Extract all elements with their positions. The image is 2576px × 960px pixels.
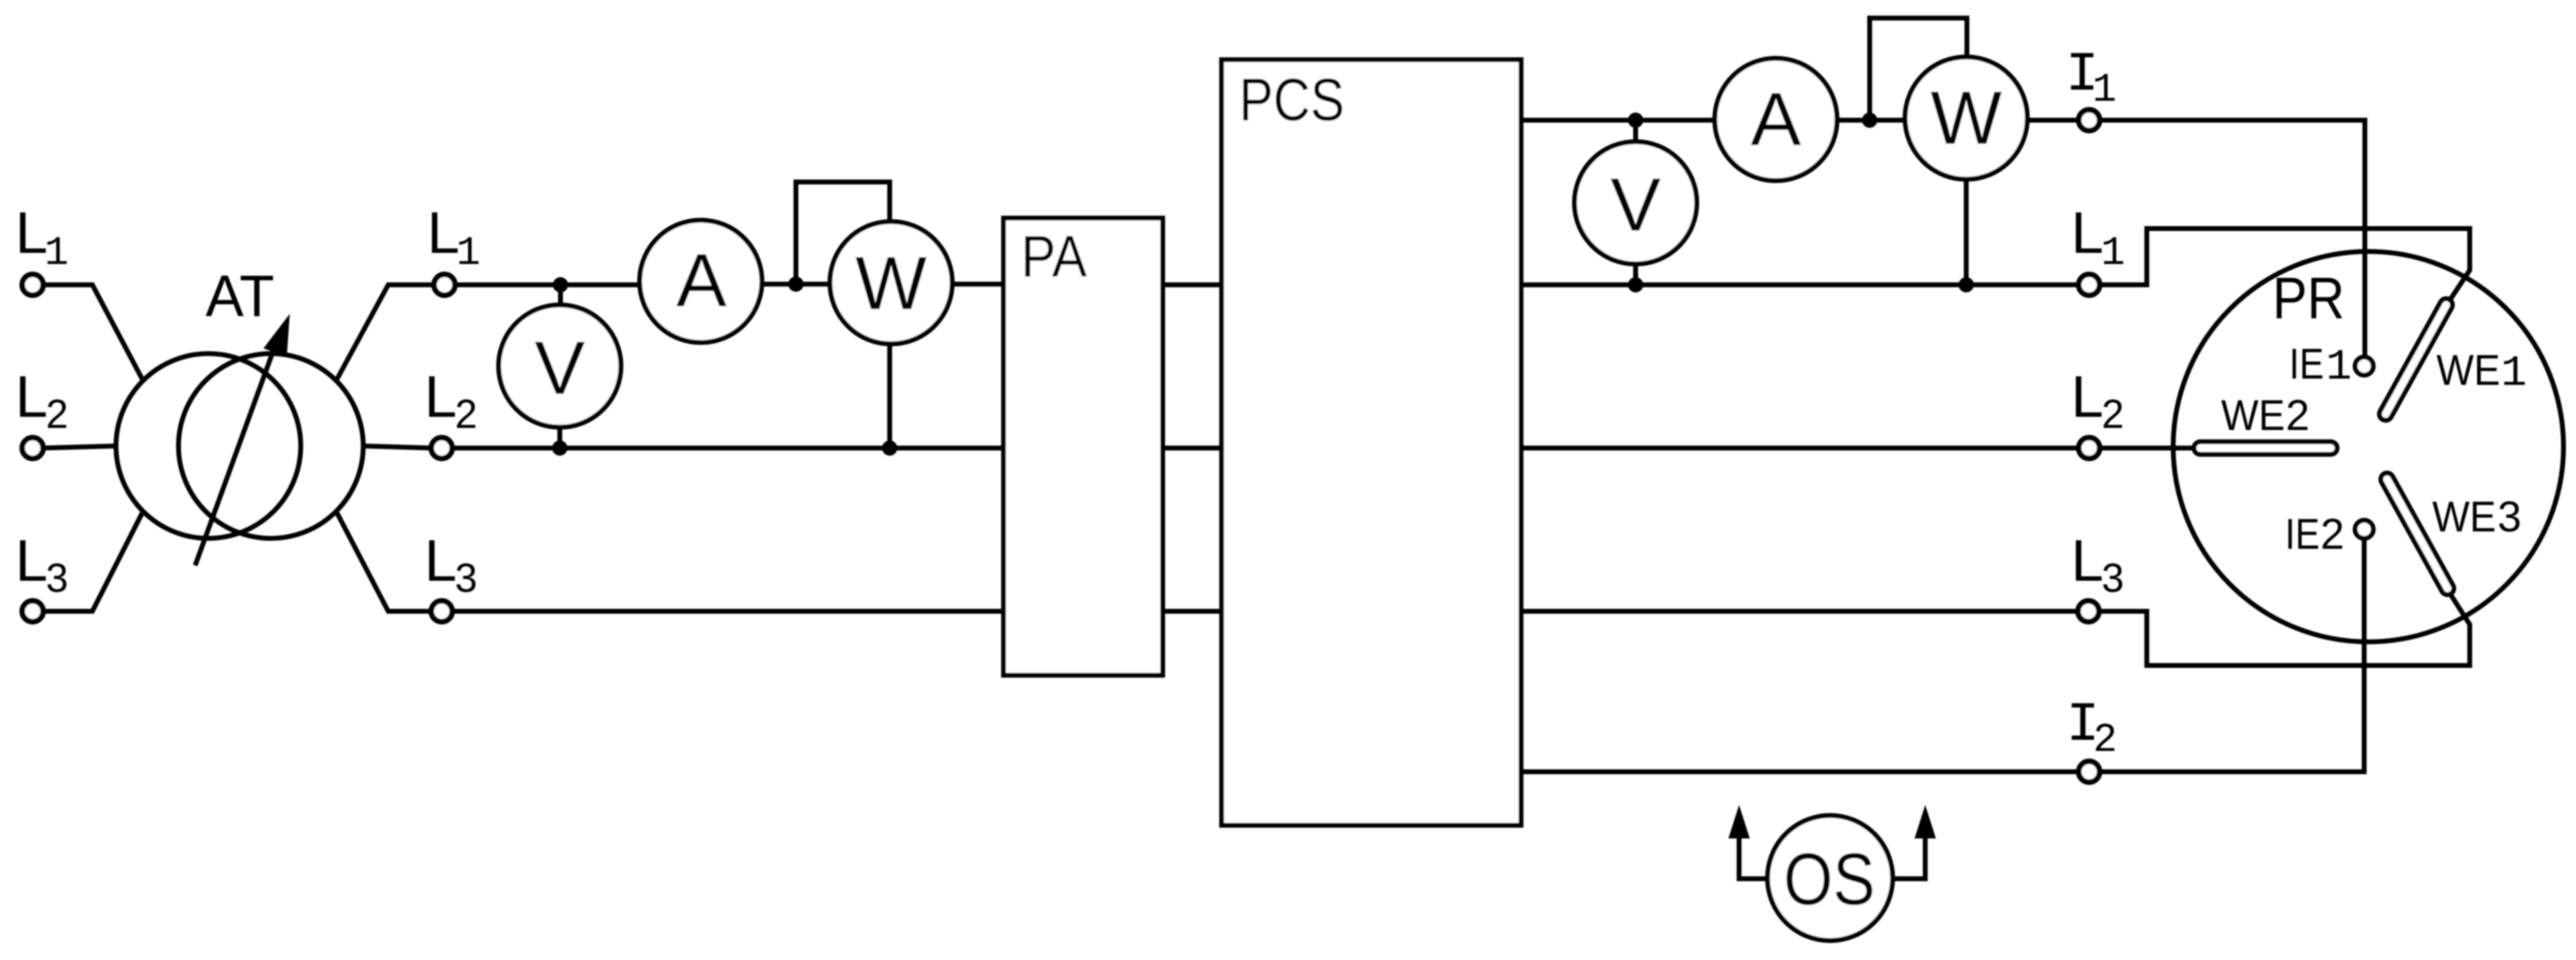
junction dot I1-V right [1628, 113, 1643, 128]
PA box [1004, 218, 1163, 675]
wire voltmeter bottom lead right [1634, 263, 1638, 285]
wire L2b lead from transformer [363, 446, 432, 448]
wire voltmeter top lead left [558, 285, 563, 306]
wire A to W segment left [761, 282, 832, 287]
wire row L3 left [451, 609, 1006, 614]
wire L1b lead from transformer [336, 285, 435, 381]
terminal L3b [431, 601, 452, 622]
svg-text:2: 2 [2093, 718, 2118, 763]
svg-text:OS: OS [1784, 838, 1875, 920]
svg-text:WE: WE [2432, 493, 2496, 541]
svg-text:AT: AT [206, 263, 274, 329]
transformer AT circle right [178, 354, 363, 538]
PCS box [1222, 60, 1521, 825]
svg-text:3: 3 [2102, 556, 2124, 601]
terminal L3c [2078, 601, 2099, 622]
wattmeter W left circle [830, 222, 952, 344]
svg-text:W: W [1931, 76, 2002, 160]
wire wattmeter bottom lead left [888, 342, 892, 448]
OS oscilloscope circle [1768, 816, 1893, 941]
svg-text:L: L [2071, 200, 2104, 265]
wire wattmeter loop right [1870, 18, 1967, 120]
terminal L1c [2079, 274, 2100, 295]
OS right arrow [1891, 834, 1925, 879]
wire L3a lead [42, 511, 143, 611]
wire row I1 top right [1519, 118, 2079, 123]
wire PA to PCS row L2 [1161, 446, 1224, 451]
terminal L2a [22, 438, 43, 458]
wire IE1 vertical [2099, 120, 2365, 357]
wire row L1 left segment [454, 283, 641, 288]
wire PA to PCS row L3 [1161, 609, 1224, 614]
wire L1a lead [42, 285, 143, 381]
wire L3b lead from transformer [336, 511, 432, 611]
transformer arrow shaft [195, 338, 278, 565]
svg-text:L: L [15, 528, 48, 593]
svg-text:L: L [424, 364, 457, 429]
svg-text:1: 1 [2326, 342, 2352, 392]
wire W to PA [951, 282, 1006, 287]
svg-text:1: 1 [44, 231, 69, 276]
svg-text:L: L [2071, 528, 2104, 593]
svg-text:WE: WE [2436, 347, 2500, 395]
svg-text:L: L [427, 200, 460, 265]
terminal L3a [22, 601, 43, 622]
PR circle [2173, 251, 2563, 642]
svg-text:L: L [2071, 364, 2104, 429]
electrode WE2 rod [2200, 440, 2331, 457]
wire row L2 left [451, 446, 1006, 451]
junction dot L1-V left [553, 277, 568, 292]
junction dot W-L1 right [1959, 277, 1974, 292]
voltmeter V left circle [499, 305, 621, 427]
wire voltmeter bottom lead left [558, 426, 563, 448]
svg-text:A: A [676, 238, 727, 323]
svg-text:PR: PR [2272, 265, 2345, 331]
svg-text:2: 2 [455, 392, 477, 437]
wire wattmeter loop left [796, 182, 890, 284]
wire L2 to WE2 [2099, 446, 2195, 451]
svg-text:2: 2 [2102, 392, 2124, 437]
svg-text:1: 1 [2101, 231, 2125, 276]
wire L1 to WE1 bracket [2099, 229, 2470, 301]
electrode IE1 circle [2355, 357, 2373, 375]
svg-text:V: V [535, 326, 585, 411]
svg-text:IE: IE [2285, 511, 2320, 558]
svg-text:IE: IE [2289, 340, 2324, 388]
terminal L2b [431, 438, 452, 458]
junction dot W-L2 left [882, 440, 897, 456]
electrode IE2 circle [2355, 520, 2373, 538]
wire wattmeter bottom lead right [1964, 178, 1969, 285]
svg-text:1: 1 [2093, 68, 2117, 113]
svg-text:3: 3 [2498, 493, 2521, 541]
svg-text:1: 1 [456, 231, 481, 276]
svg-text:2: 2 [46, 392, 68, 437]
svg-text:V: V [1611, 163, 1661, 247]
ammeter A right circle [1715, 58, 1837, 181]
svg-text:PCS: PCS [1239, 67, 1345, 133]
svg-text:L: L [15, 364, 48, 429]
wattmeter W right circle [1905, 57, 2027, 179]
wire L2a lead [42, 446, 116, 448]
electrode WE1 rod [2386, 305, 2446, 414]
svg-text:L: L [424, 528, 457, 593]
svg-text:2: 2 [2320, 511, 2344, 558]
terminal I2 [2079, 761, 2100, 782]
ammeter A left circle [640, 220, 762, 342]
junction dot V-L1 right [1628, 277, 1643, 292]
wire row L2 right [1519, 446, 2079, 451]
svg-text:L: L [15, 200, 48, 265]
svg-text:A: A [1751, 77, 1802, 162]
terminal L1b [434, 274, 455, 295]
terminal L1a [22, 274, 43, 295]
terminal L2c [2079, 438, 2100, 458]
wire voltmeter top lead right [1634, 120, 1638, 143]
svg-text:3: 3 [455, 556, 477, 601]
wire row L3 right [1519, 609, 2079, 614]
wire L3 to WE3 bracket [2098, 592, 2470, 665]
OS left arrow [1739, 834, 1770, 879]
svg-text:W: W [856, 241, 927, 326]
voltmeter V right circle [1574, 142, 1697, 264]
svg-text:1: 1 [2501, 349, 2527, 398]
wire row L1 right [1519, 283, 2079, 288]
junction dot A-W left [788, 276, 804, 292]
svg-text:PA: PA [1021, 224, 1087, 289]
junction dot I1-W right [1862, 113, 1877, 128]
wire row I2 bottom [1519, 770, 2079, 775]
electrode WE3 rod [2387, 479, 2448, 588]
junction dot V-L2 left [552, 440, 567, 456]
transformer arrowhead [265, 316, 289, 356]
wire I2 to IE2 [2098, 538, 2364, 772]
transformer AT circle left [116, 354, 301, 538]
svg-text:3: 3 [46, 556, 68, 601]
svg-text:WE: WE [2221, 392, 2285, 440]
wire PA to PCS row L1 [1161, 283, 1224, 288]
svg-text:2: 2 [2286, 392, 2309, 440]
terminal I1 [2079, 110, 2100, 131]
